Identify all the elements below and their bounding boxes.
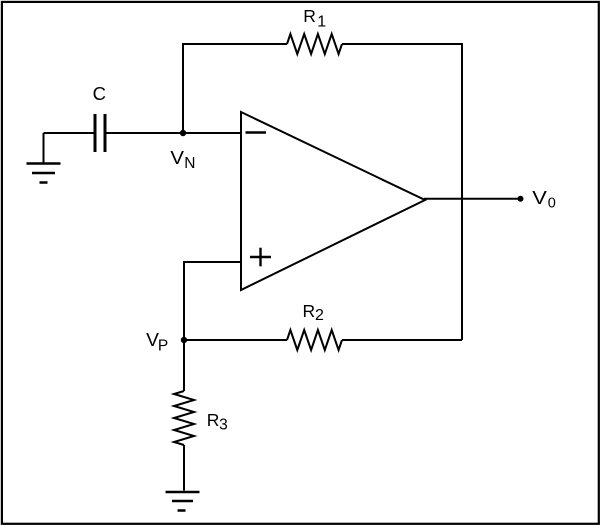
svg-text:R: R: [207, 410, 220, 430]
svg-text:2: 2: [315, 307, 324, 324]
svg-text:1: 1: [317, 14, 326, 31]
svg-text:0: 0: [548, 196, 556, 212]
svg-text:R: R: [303, 301, 316, 321]
svg-text:R: R: [303, 6, 316, 26]
svg-text:3: 3: [219, 417, 228, 434]
svg-text:N: N: [184, 155, 195, 172]
svg-text:C: C: [93, 83, 106, 104]
svg-text:P: P: [158, 337, 168, 354]
svg-text:V: V: [170, 147, 184, 168]
svg-text:V: V: [532, 187, 547, 208]
